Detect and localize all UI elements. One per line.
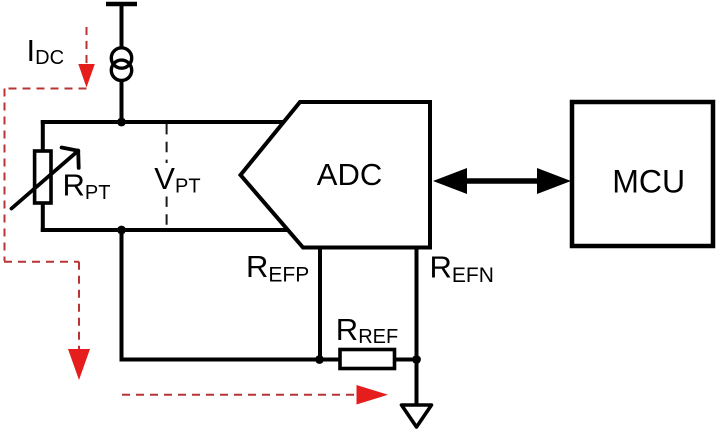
wire [41, 120, 287, 124]
svg-text:ADC: ADC [317, 157, 382, 192]
wire [415, 248, 419, 406]
supply rail bar [106, 2, 137, 7]
wire red dash seg6 [122, 394, 357, 396]
junction dot [117, 118, 126, 127]
RPT variable arrow [12, 148, 79, 209]
ground [402, 405, 432, 427]
wire [120, 4, 124, 49]
resistor RREF body [340, 350, 395, 369]
wire [41, 120, 45, 151]
junction dot [412, 355, 421, 364]
wire [120, 358, 342, 362]
red arrow 3 [357, 385, 389, 405]
wire [318, 248, 322, 360]
wire red dash seg1 [86, 27, 88, 64]
junction dot [315, 355, 324, 364]
wire red dash seg2 [4, 88, 87, 90]
IDC red dashed current path [4, 27, 357, 395]
wire [120, 230, 124, 362]
wire [41, 203, 45, 232]
node VPT dashed line [166, 124, 168, 163]
svg-text:MCU: MCU [612, 164, 685, 200]
op-amp ADC block [241, 102, 431, 248]
wire [395, 358, 417, 362]
bus arrow ADC-MCU [433, 168, 571, 194]
wire red dash seg3 [4, 89, 6, 262]
wire [120, 81, 124, 123]
wire red dash seg5 [78, 262, 80, 349]
wire [41, 228, 289, 232]
current source I1 [111, 48, 131, 81]
MCU block [572, 102, 713, 246]
resistor RPT body [35, 151, 51, 203]
red arrow 1 [78, 64, 95, 88]
red arrow 2 [68, 349, 90, 380]
junction dot [117, 226, 126, 235]
wire red dash seg4 [4, 261, 79, 263]
